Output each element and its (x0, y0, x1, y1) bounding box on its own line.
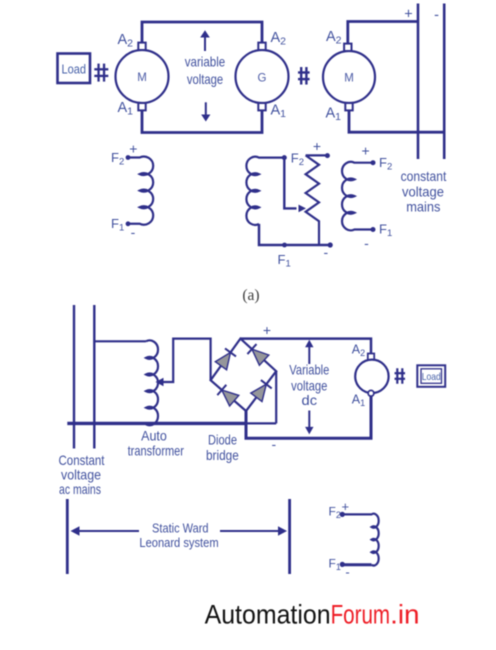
svg-text:A2: A2 (118, 32, 134, 50)
svg-text:-: - (345, 565, 349, 580)
svg-text:A2: A2 (271, 30, 287, 48)
svg-text:+: + (342, 499, 350, 514)
svg-text:Leonard system: Leonard system (139, 535, 218, 550)
svg-text:variable: variable (185, 55, 226, 70)
svg-text:+: + (313, 138, 321, 154)
svg-text:G: G (258, 73, 267, 85)
svg-text:A1: A1 (271, 103, 287, 121)
svg-text:dc: dc (302, 393, 318, 408)
svg-text:A1: A1 (118, 100, 134, 118)
svg-text:ac mains: ac mains (59, 482, 101, 497)
svg-text:F2: F2 (379, 155, 392, 173)
svg-text:-: - (434, 8, 439, 24)
svg-text:A1: A1 (352, 393, 365, 409)
svg-text:voltage: voltage (402, 184, 444, 200)
svg-text:F2: F2 (111, 150, 124, 168)
svg-text:Load: Load (61, 62, 86, 77)
svg-text:A2: A2 (352, 343, 365, 359)
svg-text:mains: mains (406, 199, 440, 215)
svg-text:-: - (364, 235, 369, 251)
svg-text:F1: F1 (278, 252, 291, 270)
svg-text:F1: F1 (379, 222, 392, 240)
svg-text:-: - (271, 436, 276, 452)
svg-text:transformer: transformer (128, 444, 185, 459)
svg-text:Auto: Auto (141, 428, 167, 443)
svg-text:A2: A2 (326, 29, 342, 47)
svg-text:Constant: Constant (59, 453, 105, 468)
svg-text:voltage: voltage (291, 379, 328, 394)
svg-text:M: M (137, 72, 147, 84)
svg-text:bridge: bridge (206, 448, 239, 463)
svg-text:+: + (362, 143, 370, 159)
svg-text:+: + (129, 141, 137, 157)
svg-text:F2: F2 (291, 151, 304, 169)
svg-text:F1: F1 (329, 556, 341, 572)
svg-text:F2: F2 (329, 505, 341, 521)
svg-text:Static Ward: Static Ward (152, 521, 209, 536)
svg-text:(a): (a) (242, 287, 259, 304)
svg-text:A1: A1 (326, 106, 342, 124)
svg-text:-: - (323, 244, 328, 260)
svg-text:Diode: Diode (208, 433, 237, 448)
svg-text:AutomationForum.in: AutomationForum.in (205, 600, 420, 630)
svg-text:+: + (263, 322, 271, 338)
svg-text:voltage: voltage (187, 72, 224, 87)
svg-text:constant: constant (401, 168, 447, 184)
svg-text:Load: Load (422, 371, 441, 383)
svg-text:voltage: voltage (61, 467, 101, 482)
svg-text:M: M (344, 73, 354, 85)
svg-text:Variable: Variable (289, 363, 329, 378)
svg-text:+: + (404, 6, 412, 22)
svg-text:F1: F1 (111, 216, 124, 234)
svg-text:-: - (131, 224, 136, 240)
